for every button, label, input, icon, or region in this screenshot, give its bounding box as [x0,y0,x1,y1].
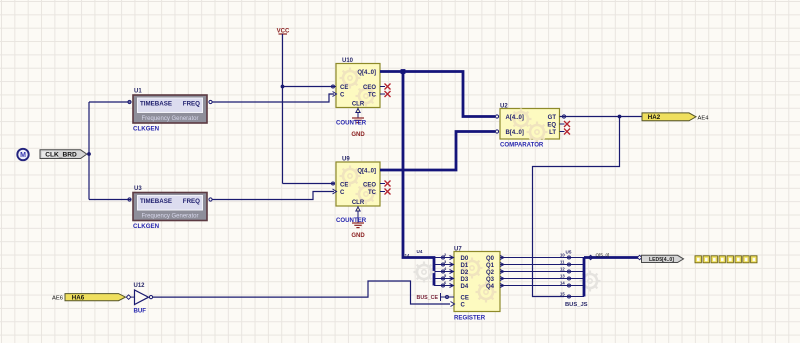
wire GT to U5 pin15 [533,117,620,297]
svg-text:LT: LT [549,130,556,136]
bus U10.Q to register D [403,72,434,286]
net tag CLK_BRD [40,150,87,159]
svg-text:GND: GND [351,132,365,138]
svg-text:U5: U5 [566,250,572,255]
svg-text:CE: CE [461,296,469,302]
pin U10 TC noconnect [380,91,391,97]
svg-text:LED5[4..0]: LED5[4..0] [649,257,674,263]
svg-text:CE: CE [340,183,348,189]
svg-text:GND: GND [351,233,365,239]
svg-text:BUS_CE: BUS_CE [417,295,439,301]
svg-text:CLK_BRD: CLK_BRD [45,152,77,159]
svg-text:15: 15 [560,292,565,297]
wire VCC to U10 CE [283,86,335,88]
svg-text:3: 3 [444,259,447,264]
svg-text:D0: D0 [461,256,469,262]
svg-text:Q3: Q3 [486,277,495,283]
wires register Q to U5 [500,256,564,288]
net tag HA6 [52,294,131,302]
svg-text:CE: CE [340,85,348,91]
svg-text:CLKGEN: CLKGEN [133,126,160,133]
wire U1.FREQ to U10.C [212,94,334,102]
svg-text:Q[4..0]: Q[4..0] [357,70,376,76]
buffer U12 [131,283,153,315]
net tag LED5 [642,255,684,263]
wire VCC to U9 CE [283,183,335,185]
svg-text:FREQ: FREQ [183,101,200,108]
clkgen U1 [128,89,212,133]
svg-text:TIMEBASE: TIMEBASE [140,198,172,205]
svg-text:Q[5..0]: Q[5..0] [596,253,610,258]
svg-text:Q[4..0]: Q[4..0] [357,169,376,175]
component U4 bus label [404,249,435,283]
svg-text:TC: TC [368,190,377,196]
svg-text:5: 5 [444,273,447,278]
svg-text:Q4: Q4 [486,284,495,290]
junction VCC [281,85,285,89]
svg-text:HA2: HA2 [648,114,661,121]
svg-text:D4: D4 [461,284,469,290]
svg-text:CEO: CEO [363,183,376,189]
svg-text:D3: D3 [461,277,469,283]
svg-text:Frequency Generator: Frequency Generator [141,116,198,122]
clkgen U3 [128,186,212,230]
wire U3.FREQ to U9.C [212,192,334,200]
svg-text:C: C [340,93,345,99]
svg-text:U1: U1 [134,89,142,95]
logo circle [17,149,28,160]
svg-text:D2: D2 [461,270,469,276]
svg-text:AE6: AE6 [52,296,63,302]
bus U5 to LED5 tag [584,256,638,259]
svg-text:U4: U4 [417,249,423,254]
bus U5 vertical [583,258,586,297]
bus U9.Q to comparator B [380,132,495,171]
junction GT [618,115,622,119]
pin U9 TC noconnect [380,189,391,195]
svg-text:REGISTER: REGISTER [454,315,486,322]
svg-text:D1: D1 [461,263,469,269]
svg-text:2: 2 [444,252,447,257]
wire U2.GT to HA2 [560,116,643,118]
svg-text:U3: U3 [134,186,142,192]
svg-text:EQ: EQ [547,123,556,129]
svg-text:BUS_JS: BUS_JS [565,302,588,308]
svg-text:Q0: Q0 [486,256,495,262]
svg-text:FREQ: FREQ [183,198,200,205]
junction CLK_BRD [87,152,91,156]
counter U9 [332,157,381,207]
svg-text:GT: GT [548,115,557,121]
svg-text:B[4..0]: B[4..0] [506,130,524,136]
pin U2 EQ noconnect [560,121,571,127]
svg-text:4: 4 [444,266,447,271]
net tag HA2 [642,113,709,121]
svg-text:13: 13 [560,274,565,279]
svg-text:10: 10 [560,253,565,258]
net label BUS_CE [417,293,455,301]
ground U9 GND [351,206,365,239]
bus U10.Q to comparator A [380,72,495,117]
svg-text:U12: U12 [134,283,146,289]
svg-text:AE4: AE4 [698,115,710,121]
svg-text:CEO: CEO [363,85,376,91]
svg-text:COUNTER: COUNTER [336,120,367,127]
pin U9 CEO noconnect [380,181,391,187]
svg-text:TIMEBASE: TIMEBASE [140,101,172,108]
wire U12 out to register C [153,281,451,304]
svg-text:TC: TC [368,93,377,99]
comparator U2 [495,104,559,149]
bus joiner U5 [560,250,601,309]
svg-text:COUNTER: COUNTER [336,217,367,224]
svg-text:A[4..0]: A[4..0] [506,115,524,121]
counter U10 [332,58,381,108]
svg-text:Frequency Generator: Frequency Generator [141,214,198,220]
svg-text:Q2: Q2 [486,270,495,276]
power VCC [277,29,290,184]
pin labels D taps [444,252,447,285]
svg-text:BUF: BUF [134,308,147,315]
svg-text:COMPARATOR: COMPARATOR [500,142,544,149]
pin U2 LT noconnect [560,129,571,135]
junction bus [401,69,406,74]
bus taps register D pins [434,258,454,286]
svg-text:14: 14 [560,281,565,286]
svg-text:6: 6 [444,280,447,285]
svg-text:CLR: CLR [352,102,365,108]
svg-text:C: C [340,190,345,196]
ground U10 GND [351,108,365,139]
LED array [695,256,757,263]
svg-text:I14: I14 [404,253,410,258]
svg-text:11: 11 [560,260,565,265]
svg-text:Q1: Q1 [486,263,495,269]
pin U10 CEO noconnect [380,84,391,90]
wire CLK_BRD trunk [87,102,131,200]
register U7 [451,247,501,322]
svg-text:12: 12 [560,267,565,272]
svg-text:M: M [20,152,26,159]
svg-text:C: C [461,303,466,309]
svg-text:HA6: HA6 [72,295,85,302]
svg-text:CLKGEN: CLKGEN [133,223,160,230]
pin marker LED5 [637,255,642,260]
svg-text:CLR: CLR [352,200,365,206]
